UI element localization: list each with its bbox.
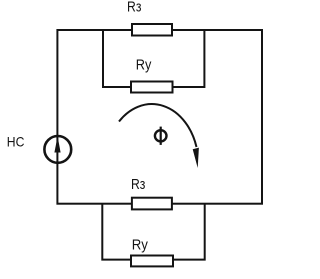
svg-text:Rу: Rу <box>136 57 152 74</box>
flux arrowhead <box>193 148 199 168</box>
resistor R3 bottom <box>132 198 172 210</box>
wire top parallel branch <box>103 29 204 87</box>
svg-text:Rз: Rз <box>131 176 145 193</box>
resistor Ry bottom <box>131 256 173 267</box>
current source HC circle <box>44 136 71 163</box>
resistor R3 top <box>132 24 172 36</box>
label Phi stem <box>160 127 162 145</box>
resistor Ry top <box>131 82 173 93</box>
current source arrow <box>54 136 60 152</box>
label Phi ellipse <box>155 130 167 141</box>
svg-text:НС: НС <box>7 134 25 150</box>
svg-text:Rу: Rу <box>132 237 149 254</box>
wire bottom parallel branch <box>102 203 204 260</box>
svg-text:Rз: Rз <box>127 0 141 16</box>
wire outer loop <box>57 30 262 204</box>
flux arc <box>119 104 197 147</box>
